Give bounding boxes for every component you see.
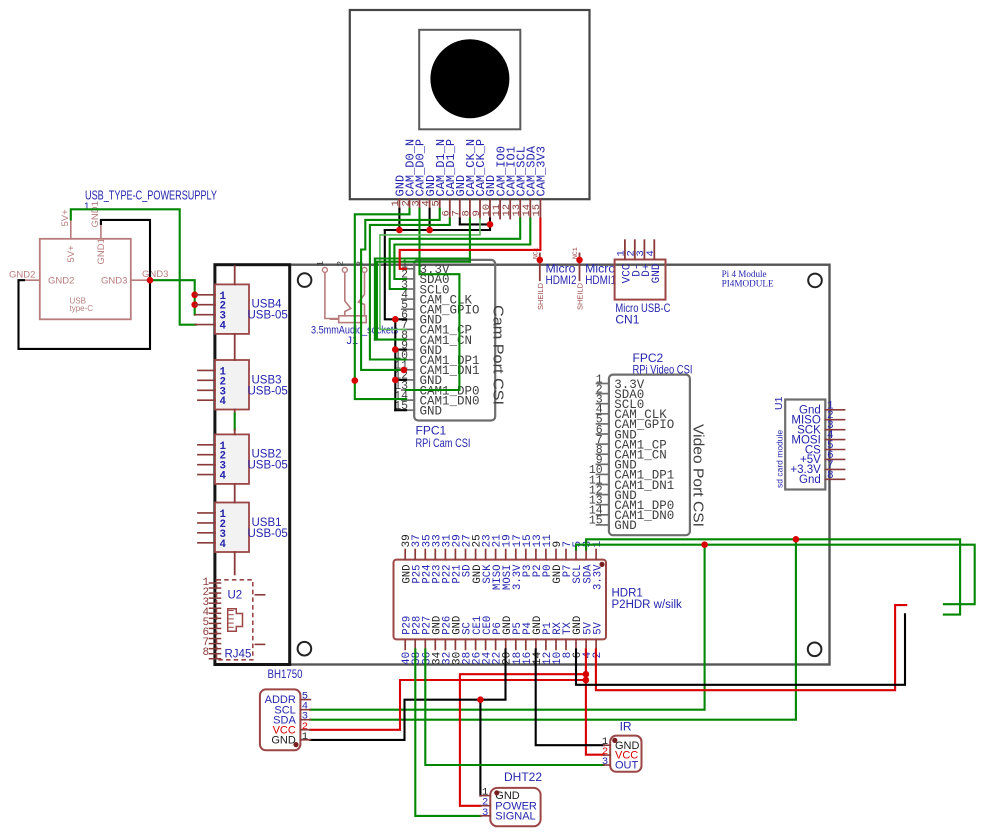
junction SDA: [793, 536, 800, 543]
U2 right stubs: [255, 595, 264, 645]
usb-c GND2 pin: [9, 270, 40, 281]
HDR1 pin 19 MOSI: [502, 534, 514, 590]
junction on CAM_D0_N vertical: [352, 377, 359, 384]
HDR1 pin 6 GND: [572, 616, 584, 659]
camera pin 11 CAM_IO0: [491, 146, 508, 218]
camera pin 6 CAM_D1_P: [441, 139, 458, 219]
USB4 top stub: [234, 266, 236, 284]
svg-text:U1: U1: [773, 396, 785, 410]
svg-text:Cam Port CSI: Cam Port CSI: [490, 305, 506, 405]
svg-text:HDMI2: HDMI2: [546, 273, 577, 287]
HDR1 pin 32 P26: [441, 616, 453, 665]
svg-text:GND3: GND3: [142, 269, 168, 280]
svg-text:SHEILD: SHEILD: [536, 282, 545, 310]
svg-text:2: 2: [335, 261, 346, 267]
camera lens circle: [430, 39, 509, 118]
svg-text:GND: GND: [271, 734, 296, 746]
HDR1 pin 37 P25: [411, 534, 423, 583]
svg-text:GND1: GND1: [96, 238, 107, 264]
svg-text:GND2: GND2: [48, 276, 74, 287]
svg-text:4: 4: [645, 250, 657, 256]
sensor BH1750 box: [260, 689, 311, 750]
svg-text:RJ45: RJ45: [225, 649, 252, 661]
sensor IR box: [602, 736, 642, 772]
connector HDR1 P2HDR: [394, 560, 607, 640]
wire GND net HDR1 pin14 to IR: [536, 649, 604, 745]
HDR1 pin 1 3.3V: [592, 541, 604, 590]
svg-text:4: 4: [220, 471, 227, 483]
svg-text:5V+: 5V+: [60, 209, 71, 227]
mounting hole bottom-left: [298, 642, 312, 656]
audio socket J1 symbol: [315, 261, 367, 323]
svg-text:GND: GND: [651, 263, 663, 283]
HDR1 pin 17 3.3V: [512, 534, 524, 590]
HDR1 pin 14 GND: [532, 616, 544, 665]
Micro HDMI1 connector: [572, 247, 616, 310]
wire P27 HDR1 pin36 to IR OUT: [425, 649, 604, 765]
camera pin 15 CAM_3V3: [531, 146, 548, 218]
HDR1 pin 31 P22: [441, 534, 453, 584]
HDR1 pin 5 SCL: [572, 541, 584, 584]
svg-text:8: 8: [827, 470, 834, 482]
camera pin 14 CAM_SDA: [521, 145, 538, 218]
svg-text:IR: IR: [620, 720, 632, 734]
HDR1 pin 4 5V: [582, 621, 594, 658]
usb-c GND1 pin: [90, 201, 101, 239]
svg-text:CAM_3V3: CAM_3V3: [535, 146, 549, 196]
HDR1 pin 26 CE1: [472, 616, 484, 665]
wire GND3 to USB4 pins 1-3: [150, 280, 195, 315]
wire GND net HDR1 pin6 to right stub: [576, 614, 905, 685]
camera module box: [350, 10, 590, 199]
HDR1 pin 23 SCK: [482, 534, 494, 583]
svg-text:5: 5: [431, 200, 443, 206]
connector USB2 USB-05: [198, 434, 288, 484]
USB4-USB3 stub: [234, 334, 236, 360]
svg-text:USB-05: USB-05: [248, 528, 288, 540]
svg-text:1: 1: [302, 731, 308, 743]
svg-text:3: 3: [602, 756, 608, 768]
svg-text:USB-05: USB-05: [248, 460, 288, 472]
wire SDA net HDR1 pin3 to BH1750: [310, 539, 960, 719]
connector U2 RJ45 dashed box: [217, 580, 253, 660]
HDR1 pin 8 TX: [562, 621, 574, 658]
HDR1 pin 24 CE0: [482, 616, 494, 665]
svg-text:HDR1: HDR1: [612, 588, 643, 600]
wire CAM_SDA cam14 to FPC1 pin2: [394, 219, 530, 280]
junction USB4 pin1: [191, 292, 198, 299]
svg-text:4: 4: [220, 396, 227, 408]
FPC2 labels: [633, 351, 693, 377]
wire CAM_3V3 cam15 to FPC1 pin1 (red): [400, 219, 541, 269]
svg-text:RPi Video CSI: RPi Video CSI: [633, 362, 693, 376]
junction camera pin1 GND: [396, 227, 403, 234]
USB1 bottom stub: [234, 552, 236, 574]
HDR1 pin 18 P5: [512, 622, 524, 665]
camera pin 12 CAM_IO1: [501, 146, 518, 218]
usb-c supply inside labels: [48, 238, 127, 313]
module U1 sd card: [785, 400, 844, 490]
camera pin 4 GND: [420, 175, 437, 209]
HDR1 pin 39 GND: [401, 534, 413, 583]
USB3-USB2 stub with green wire: [234, 410, 236, 435]
wire VCC DHT22 branch: [460, 674, 586, 806]
svg-text:P2HDR w/silk: P2HDR w/silk: [612, 599, 683, 611]
CN1 labels: [615, 301, 670, 327]
camera pin 5 CAM_D1_N: [431, 139, 448, 209]
svg-text:4: 4: [220, 321, 227, 333]
camera pin 3 CAM_D0_P: [410, 139, 427, 209]
wire P28 HDR1 pin38 to DHT22 SIGNAL: [415, 649, 480, 816]
connector USB1 USB-05: [198, 503, 288, 553]
camera pin 13 CAM_SCL: [511, 146, 528, 218]
mounting hole bottom-right: [808, 643, 822, 657]
svg-text:CN1: CN1: [615, 313, 639, 327]
wire CAM_D0_N cam2 to FPC1 pin14: [355, 209, 410, 399]
svg-text:SHEILD: SHEILD: [576, 282, 585, 310]
svg-text:GND2: GND2: [9, 270, 35, 281]
USB2-USB1 stub: [234, 484, 236, 502]
mounting hole top-right: [808, 274, 822, 288]
junction USB4 pin2: [191, 301, 198, 308]
svg-text:5V+: 5V+: [66, 245, 77, 263]
svg-text:15: 15: [531, 204, 543, 217]
svg-text:GND: GND: [614, 519, 637, 533]
svg-text:OUT: OUT: [615, 760, 639, 772]
HDR1 pin 22 P6: [492, 622, 504, 665]
HDR1 pin 28 SC: [462, 622, 474, 665]
HDR1 pin 30 GND: [451, 616, 463, 665]
RJ45 jack icon: [228, 609, 243, 632]
junction 5V lower: [583, 677, 590, 684]
BH1750 pin1 mark: [293, 742, 298, 747]
camera lens box: [419, 30, 520, 130]
wire CAM_CK_P cam9 to FPC1 pin7 (pale): [380, 219, 480, 330]
J1 labels: [311, 325, 398, 347]
Pi 4 module board outline: [290, 265, 830, 665]
HDR1 pin 7 P7: [562, 541, 574, 577]
svg-text:USB-05: USB-05: [248, 385, 288, 397]
usb-c 5V+ pin: [60, 209, 71, 239]
wire CAM_D0_P cam3 to FPC1 pin13: [406, 209, 459, 390]
wire 5V net HDR1 pin4 down with branches: [586, 649, 604, 754]
HDR1 pin 25 GND: [472, 534, 484, 583]
junction 5V upper: [583, 671, 590, 678]
svg-text:3.3V: 3.3V: [592, 564, 604, 590]
junction FPC1 pin11: [401, 367, 408, 374]
HDR1 pin 36 P27: [421, 616, 433, 665]
Pi 4 Module reference label: [722, 269, 775, 289]
mounting hole top-left: [298, 273, 312, 287]
svg-text:NC1: NC1: [572, 247, 579, 259]
junction FPC1 pin9: [392, 346, 399, 353]
svg-text:1: 1: [315, 261, 326, 267]
HDR1 pin 9 GND: [552, 541, 564, 584]
wire GND net: GND1-GND2 loop: [19, 220, 151, 349]
wire VCC BH1750 branch: [310, 680, 586, 730]
HDR1 pin 12 P1: [542, 622, 554, 665]
wire GND net camera pins 1,4,7,10 to FPC1 GND bus: [385, 209, 490, 410]
usb-c power supply box: [40, 239, 131, 319]
svg-text:BH1750: BH1750: [268, 667, 303, 681]
HDR1 labels: [612, 588, 683, 612]
junction GND3: [147, 277, 154, 284]
svg-text:5V: 5V: [592, 621, 604, 634]
svg-text:RPi Cam CSI: RPi Cam CSI: [416, 436, 471, 450]
connector USB4 USB-05: [195, 284, 288, 334]
camera pin 10 GND: [481, 175, 498, 219]
HDR1 pin 21 MISO: [492, 534, 504, 590]
camera pin 2 CAM_D0_N: [400, 139, 417, 209]
camera pin 7 GND: [451, 175, 468, 219]
junction FPC1 pin12: [392, 377, 399, 384]
svg-text:15: 15: [589, 515, 603, 528]
camera pin 8 CAM_CK_N: [461, 139, 478, 219]
svg-text:USB_TYPE-C_POWERSUPPLY: USB_TYPE-C_POWERSUPPLY: [85, 189, 217, 203]
HDR1 pin 27 SD: [462, 534, 474, 577]
wire GND net HDR1 pin20 to BH1750/DHT22: [310, 649, 505, 795]
HDR1 pin 29 P21: [451, 534, 463, 583]
wire 5V net HDR1 pin2 to right stub: [596, 605, 906, 690]
camera pin 9 CAM_CK_P: [471, 139, 488, 219]
svg-text:U2: U2: [228, 590, 243, 602]
svg-text:3: 3: [482, 807, 488, 819]
HDR1 pin 35 P24: [421, 534, 433, 583]
connector FPC2: [589, 373, 690, 535]
svg-text:type-C: type-C: [70, 304, 94, 313]
usb-c GND3 pin: [131, 269, 169, 280]
wire CAM_D1_N cam5 to FPC1 pin11: [361, 209, 440, 370]
junction camera pin10 GND: [487, 221, 494, 228]
HDR1 pin 16 P4: [522, 622, 534, 665]
HDR1 pin 20 GND: [502, 616, 514, 665]
svg-text:PI4MODULE: PI4MODULE: [722, 279, 775, 289]
wire CAM_CK_N cam8 to FPC1 pin8: [375, 219, 470, 340]
svg-text:GND: GND: [420, 405, 443, 419]
svg-text:DHT22: DHT22: [504, 770, 542, 784]
FPC1 labels: [416, 423, 471, 450]
HDR1 pin 11 P0: [542, 534, 554, 577]
wire CAM_D1_P cam6 to FPC1 pin10: [370, 219, 450, 360]
connector CN1 Micro USB-C: [615, 240, 666, 299]
svg-text:8: 8: [203, 647, 210, 659]
HDR1 pin 10 RX: [552, 621, 564, 665]
junction camera pin4 GND: [426, 227, 433, 234]
svg-text:3: 3: [355, 261, 366, 267]
HDR1 pin 2 5V: [592, 621, 604, 658]
sensor DHT22 box: [480, 787, 540, 827]
svg-text:GND3: GND3: [101, 276, 127, 287]
wire CAM_SCL cam13 to FPC1 pin3: [390, 219, 521, 290]
svg-text:USB-05: USB-05: [248, 310, 288, 322]
svg-text:Pi 4 Module: Pi 4 Module: [722, 269, 767, 279]
USB connector column outline: [215, 265, 290, 665]
svg-text:2: 2: [592, 652, 604, 659]
junction GND DHT22 branch: [477, 696, 484, 703]
svg-text:J1: J1: [347, 335, 359, 347]
HDR1 pin 33 P23: [431, 534, 443, 583]
HDR1 pin 3 SDA: [582, 541, 594, 584]
junction SCL: [701, 541, 708, 548]
svg-text:Video Port CSI: Video Port CSI: [690, 424, 706, 527]
svg-text:4: 4: [220, 539, 227, 551]
HDR1 pin 15 P3: [522, 534, 534, 577]
DHT22 pin1 mark: [494, 790, 499, 795]
wire 5V net: 5V+ to USB4 pin4: [71, 209, 196, 324]
svg-text:Gnd: Gnd: [799, 474, 821, 486]
HDR1 pin 34 GND: [431, 616, 443, 665]
HDR1 pin 13 P2: [532, 534, 544, 577]
HDR1 pin 38 P28: [411, 616, 423, 665]
wire SCL net HDR1 pin5 to BH1750: [310, 545, 975, 710]
HDR1 pin1 mark dot: [599, 562, 604, 567]
U2 pins 1-8: [203, 577, 221, 659]
connector FPC1: [394, 259, 495, 421]
svg-text:HDMI1: HDMI1: [585, 273, 616, 287]
svg-text:sd card module: sd card module: [775, 430, 785, 488]
svg-text:SIGNAL: SIGNAL: [495, 810, 535, 822]
junction FPC1 pin6: [392, 316, 399, 323]
IR pin1 mark: [612, 738, 617, 743]
connector USB3 USB-05: [198, 360, 288, 410]
HDR1 pin 40 P29: [401, 616, 413, 665]
svg-text:GND1: GND1: [90, 201, 101, 227]
camera pin 1 GND: [390, 175, 407, 209]
Micro HDMI2 connector: [532, 247, 576, 310]
